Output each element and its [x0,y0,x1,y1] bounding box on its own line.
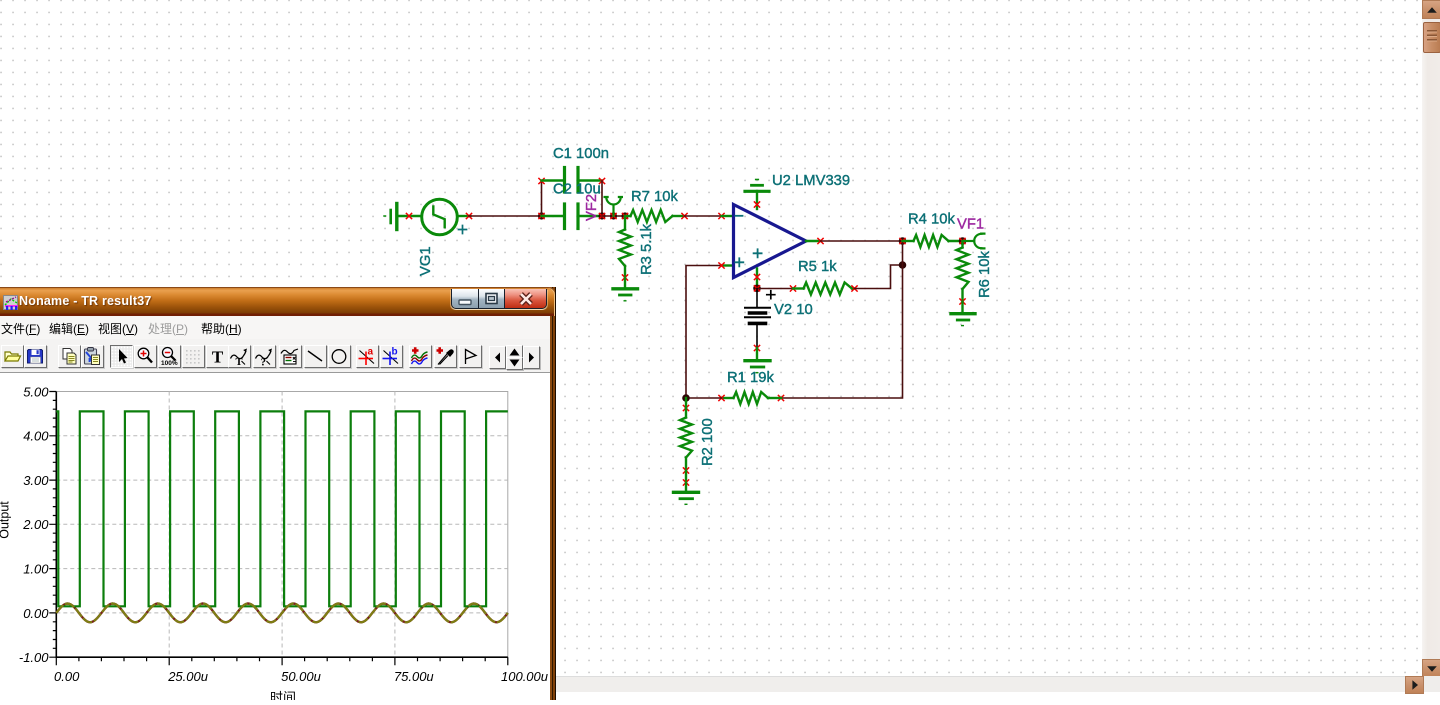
toolbar button: zoom 100% [158,345,181,368]
resistor R1 [722,392,782,404]
pin marker R1 right [778,395,783,400]
wire R5 to output column [855,265,903,289]
toolbar button: grid (disabled) [182,345,205,368]
capacitor C1 [542,168,603,193]
svg-text:a: a [367,346,373,357]
wire R7 to U2 minus [685,215,722,217]
toolbar button: line tool [304,345,327,368]
svg-text:b: b [391,346,397,357]
pin marker U2 plus input [719,263,724,268]
ground for VG1 [384,204,422,230]
node output junction [899,237,907,245]
trace VF2 sine (maroon under) [56,604,508,623]
capacitor C2 [542,204,603,229]
resistor R6 [957,241,969,302]
svg-text:4.00: 4.00 [23,429,49,444]
svg-text:5.00: 5.00 [23,384,49,399]
svg-text:100%: 100% [161,360,178,367]
pin marker R2 bottom [683,468,688,473]
horizontal scrollbar track [0,676,1422,692]
node R5 tap junction [899,261,907,269]
wire C1 right riser [601,181,603,216]
node U2/V2 junction [753,285,761,293]
toolbar nav left [489,346,506,369]
pin marker R3 bottom [622,275,627,280]
vertical scrollbar track [1422,0,1440,676]
svg-text:R2 100: R2 100 [700,418,716,466]
pin marker C1 left [539,178,544,183]
toolbar button: curve query tool [253,345,276,368]
svg-text:V2 10: V2 10 [774,302,813,318]
TR result window [0,287,556,700]
window control buttons [451,289,547,310]
trace output square wave [56,411,508,606]
toolbar button: open [1,345,24,368]
node C-right junction [598,212,605,219]
wire C1 left riser [541,181,543,216]
svg-text:?: ? [260,356,266,367]
menu bar [0,316,550,339]
node R1/R2 junction [682,394,690,402]
wire feedback column [781,241,903,398]
pin marker R7 right [682,213,687,218]
toolbar button: add curves [409,345,432,368]
ground for R2 [674,483,699,505]
toolbar button: pick tool [434,345,457,368]
op-amp U2 LMV339 [722,205,807,278]
wire R1 to R2 node [686,397,722,399]
svg-text:50.00u: 50.00u [281,669,321,684]
svg-text:R5 1k: R5 1k [798,259,837,275]
pin marker U2 output [818,238,823,243]
wire U2 bottom pin [756,269,758,289]
VG1 plus polarity [459,226,467,234]
pin marker U2 bottom [754,274,759,279]
pin marker R2 gnd [683,480,688,485]
svg-text:C1 100n: C1 100n [553,146,609,162]
pin marker U2 minus input [719,213,724,218]
toolbar button: curve label tool [228,345,251,368]
wire output to R4 node [821,240,903,242]
vertical scrollbar up button [1422,0,1440,19]
node R7/R3 junction [621,212,628,219]
toolbar button: save [24,345,47,368]
svg-text:R4 10k: R4 10k [908,212,955,228]
svg-text:VF1: VF1 [957,217,984,233]
title bar [0,287,555,316]
svg-text:0.00: 0.00 [23,606,49,621]
pin marker VG1 out [466,213,471,218]
svg-text:25.00u: 25.00u [167,669,208,684]
vertical scrollbar thumb [1423,22,1440,53]
wire junction to R5 [757,288,793,290]
vertical scrollbar down button [1422,659,1440,678]
ground for V2 [745,348,770,373]
voltage generator VG1 [422,199,471,235]
gridlines [56,392,508,658]
toolbar button: copy [58,345,81,368]
pin marker V2 bottom [754,345,759,350]
ground for R6 [951,302,975,326]
svg-text:R7 10k: R7 10k [631,189,678,205]
corner [1422,676,1440,692]
toolbar button: select cursor (pressed) [110,345,133,368]
power rail for U2 [745,180,769,210]
svg-text:R6 10k: R6 10k [977,251,993,298]
svg-text:T: T [211,347,223,366]
toolbar button: text tool [206,345,229,368]
svg-text:0.00: 0.00 [54,669,80,684]
ground for R3 [613,278,638,301]
pin marker VG1 gnd [406,213,411,218]
svg-text:VF2: VF2 [584,194,600,221]
wire C-node to R7-node [602,215,625,217]
battery V2 [745,289,775,349]
voltage probe VF1 [963,234,985,249]
node VF2 junction [610,212,617,219]
x axis labels [54,669,548,684]
trace VF1 sine (olive) [56,604,508,623]
pin marker R6 bottom [960,299,965,304]
toolbar nav spinner down [506,357,523,371]
pin marker R5 right [852,286,857,291]
wire VG1 to C-node [469,215,542,217]
chart client area [0,373,550,700]
toolbar button: zoom in [134,345,157,368]
svg-text:100.00u: 100.00u [501,669,548,684]
svg-text:-1.00: -1.00 [19,650,49,665]
window icon [3,295,18,310]
voltage probe VF2 [605,197,622,216]
axis ticks [49,392,508,666]
plot frame [56,392,508,658]
pin marker U2 vplus [754,202,759,207]
toolbar [0,339,550,373]
svg-text:U2 LMV339: U2 LMV339 [772,173,850,189]
toolbar button: paste [81,345,104,368]
resistor R7 [625,210,685,222]
horizontal scrollbar right button [1405,676,1424,694]
pin marker C1 right [599,178,604,183]
pin marker R1 left [719,395,724,400]
wire U2 output [806,240,821,242]
y axis labels [19,384,49,665]
toolbar button: cursor b [380,345,403,368]
svg-text:75.00u: 75.00u [394,669,434,684]
svg-text:3.00: 3.00 [23,473,49,488]
resistor R5 [793,283,855,295]
toolbar button: ellipse tool [328,345,351,368]
toolbar button: cursor a [356,345,379,368]
toolbar button: corner marker [459,345,482,368]
svg-text:2.00: 2.00 [22,517,49,532]
svg-text:1.00: 1.00 [23,562,49,577]
svg-text:Output: Output [0,501,12,539]
svg-text:T: T [236,357,243,367]
pin marker R5 left [790,286,795,291]
toolbar nav right [523,346,540,369]
toolbar button: legend tool [279,345,302,368]
svg-text:R3 5.1k: R3 5.1k [639,223,655,275]
resistor R2 [680,398,692,471]
wire R2 to ground [685,471,687,483]
pin marker R2 top [683,405,688,410]
wire U2 plus input feedback [686,266,722,399]
node R4/R6 junction [959,237,967,245]
svg-text:VG1: VG1 [418,246,434,276]
resistor R3 [619,216,631,278]
node C-left junction [538,212,545,219]
resistor R4 [903,235,963,247]
svg-text:R1 19k: R1 19k [727,370,774,386]
axes [56,392,508,658]
toolbar nav spinner [506,345,523,358]
